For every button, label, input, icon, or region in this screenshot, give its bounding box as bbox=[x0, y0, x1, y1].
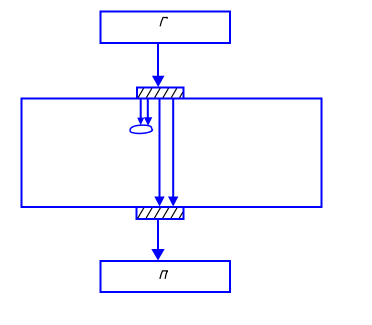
bottom hatched bar bbox=[129, 207, 186, 219]
arrowhead into box P bbox=[151, 249, 164, 261]
top hatched bar bbox=[129, 87, 186, 99]
arrowhead into top bar bbox=[152, 76, 165, 87]
big middle rectangle bbox=[22, 99, 322, 208]
box G (top process block) bbox=[101, 12, 231, 44]
box P (bottom process block) bbox=[101, 261, 231, 292]
arrowhead wire 4 bbox=[168, 197, 178, 207]
wire 3 (long) bbox=[159, 99, 161, 197]
arrowhead wire 2 bbox=[144, 117, 152, 126]
arrowhead wire 1 bbox=[137, 118, 144, 126]
wire 2 (short) bbox=[147, 99, 149, 118]
ellipse (scribble oval) bbox=[130, 125, 152, 133]
arrowhead wire 3 bbox=[154, 197, 164, 207]
label G bbox=[160, 18, 167, 27]
wire from bottom bar down bbox=[157, 219, 159, 250]
wire 4 (long) bbox=[172, 99, 174, 197]
wire from box G down bbox=[157, 43, 159, 78]
label P bbox=[160, 271, 168, 279]
wire 1 (short, left) bbox=[140, 99, 142, 118]
